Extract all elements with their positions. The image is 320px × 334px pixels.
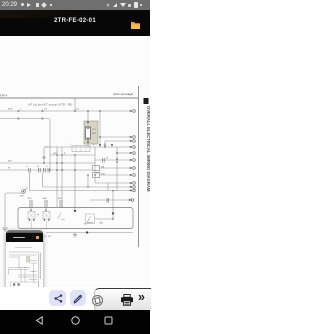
inline connector y170 b — [39, 168, 41, 173]
junction y155 b — [61, 154, 63, 156]
wire bus y163 — [0, 162, 95, 164]
wire exit y200 — [90, 199, 130, 201]
splice tick x18 y111 — [17, 110, 20, 112]
svg-text:E1: E1 — [84, 224, 87, 226]
ECU pin connector a — [30, 200, 32, 208]
exit circle y200 — [131, 199, 134, 202]
ground wire left — [5, 193, 22, 228]
wire bus y191 — [29, 190, 131, 192]
ground symbol bottom — [73, 233, 77, 238]
svg-text:4.0: 4.0 — [76, 109, 80, 111]
switch S2 inside ECU — [87, 217, 93, 223]
svg-text:B-R: B-R — [96, 173, 100, 175]
wire exit y141 — [105, 140, 131, 142]
connector arrow into relay top — [87, 122, 89, 124]
junction q2 — [45, 209, 46, 210]
inline connector y170 e — [56, 169, 58, 171]
folder icon — [130, 20, 141, 30]
junction x100 y137 — [99, 136, 101, 138]
plus marks between drivers — [37, 214, 39, 216]
wire stub q1 — [30, 208, 32, 213]
junction relay feed — [87, 110, 89, 112]
mini ECU box — [10, 282, 38, 288]
junction q1 — [30, 209, 31, 210]
exit arrow y183 — [130, 182, 132, 183]
junction x115 y153 — [116, 152, 118, 154]
title bar — [0, 10, 150, 36]
status bar — [0, 0, 150, 10]
inline connector y170 a — [29, 168, 31, 173]
wire bus W-B y111 — [0, 110, 131, 112]
printer icon — [120, 294, 134, 306]
wire stub below Q1 — [31, 221, 33, 229]
junction y155 a — [56, 154, 58, 156]
svg-text:W-B: W-B — [8, 109, 13, 111]
wire vertical x100 — [99, 111, 101, 147]
wire exit y183 — [95, 182, 131, 184]
exit circle y183 — [133, 182, 136, 185]
splice tick x42 y111 — [41, 110, 44, 112]
exit circle y168 — [133, 167, 136, 170]
svg-text:RLY: RLY — [92, 133, 97, 135]
svg-text:2: 2 — [20, 109, 22, 111]
mini caption — [15, 247, 32, 249]
mini title bar — [6, 233, 43, 242]
switch S1 inside ECU — [58, 213, 65, 220]
exit circle y141 — [133, 140, 136, 143]
inline connector y160 — [103, 158, 105, 163]
mini sidebar text — [39, 253, 41, 279]
svg-text:1: 1 — [70, 144, 72, 146]
svg-text:OVERALL ELECTRICAL WIRING DIAG: OVERALL ELECTRICAL WIRING DIAGRAM — [146, 106, 150, 192]
wire exit y175 — [95, 174, 131, 176]
wire relay to bus y147 — [87, 144, 89, 148]
exit arrow y191 — [130, 190, 132, 191]
connector arrow on bus y147 b — [111, 144, 113, 146]
connector ring x44 — [43, 156, 45, 158]
share button — [49, 290, 66, 307]
wire exit y168 — [95, 167, 131, 169]
junction x75 y170 — [74, 169, 76, 171]
exit circle y175 — [133, 174, 136, 177]
exit arrow y168 — [130, 167, 132, 168]
splice tick x18 y118.5 — [17, 117, 20, 119]
android nav bar — [0, 310, 150, 334]
mini verticals — [18, 257, 20, 268]
wire vertical x115 — [116, 147, 118, 191]
wire vertical x57 — [56, 147, 58, 208]
mini folder icon — [36, 236, 39, 239]
wire stub q2 — [45, 208, 47, 213]
connector arrow out of relay bottom — [87, 141, 89, 143]
wire exit y153 — [117, 152, 131, 154]
svg-text:E03: E03 — [20, 196, 24, 198]
wire bus y155 — [50, 154, 95, 156]
svg-text:B-O: B-O — [8, 161, 12, 163]
relay K1 coil — [86, 127, 91, 139]
rotate/bubble icon — [91, 294, 104, 307]
svg-text:STA: STA — [99, 222, 103, 225]
fuse F2 — [93, 173, 100, 178]
exit arrow y160 — [130, 159, 132, 160]
mini status bar — [6, 230, 43, 233]
exit connectors group — [129, 110, 136, 202]
exit arrow y187 — [130, 186, 132, 187]
ECU pin connector b — [45, 200, 47, 208]
ground symbol left — [2, 228, 8, 231]
mini page — [6, 242, 43, 295]
svg-text:IK: IK — [37, 166, 40, 168]
exit circle y153 — [133, 152, 136, 155]
exit arrow y137 — [130, 136, 132, 137]
svg-text:W-B: W-B — [53, 153, 58, 155]
exit circle y147 — [133, 146, 136, 149]
junction y175 b — [94, 174, 96, 176]
connector C1 dots — [23, 191, 24, 192]
junction x105 y147 — [104, 146, 106, 148]
connector arrow into ECU x75 — [74, 210, 77, 213]
frame right border — [138, 86, 140, 247]
wire inside ECU y219 — [95, 218, 113, 220]
wire vertical x95 right block — [94, 147, 96, 175]
wire stub below Q2 — [46, 221, 48, 229]
relay pin 1 — [87, 127, 89, 129]
inline connector y170 d — [48, 168, 50, 173]
svg-text:IG: IG — [106, 158, 109, 160]
junction block J1 — [72, 146, 90, 152]
mini ground — [7, 268, 9, 275]
pencil button — [70, 290, 87, 307]
junction x57 y163 — [56, 162, 58, 164]
svg-text:7.5A: 7.5A — [101, 173, 106, 176]
junction x75 y111 — [74, 110, 76, 112]
ECU pin connector c — [60, 200, 62, 208]
svg-text:A/T (a) and A/T except (GTR -: A/T (a) and A/T except (GTR - FE) — [28, 103, 73, 106]
mini relay — [26, 257, 29, 263]
svg-text:E2 E3: E2 E3 — [44, 236, 51, 238]
junction x50 y170 — [49, 169, 51, 171]
junction x62 y170 — [61, 169, 63, 171]
svg-text:2: 2 — [93, 145, 95, 147]
driver Q1 crossed box — [28, 212, 35, 220]
svg-text:4.0: 4.0 — [44, 109, 48, 111]
junction x115 y219 — [112, 218, 114, 220]
ECU U1 box — [18, 208, 133, 229]
fuse F1 — [93, 166, 100, 171]
splice tick x42 y118.5 — [41, 117, 44, 119]
wire feed from top border x75 — [74, 98, 76, 111]
mini marks — [13, 267, 34, 286]
exit circle y111 — [133, 110, 136, 113]
wire bus y187 — [42, 186, 131, 188]
wire stub x105 — [104, 141, 106, 147]
exit arrow y175 — [130, 174, 132, 175]
exit arrow y141 — [130, 140, 132, 141]
driver pin dots — [29, 219, 50, 220]
relay pin 2 — [87, 138, 89, 140]
frame top border — [0, 97, 139, 99]
wire vertical x75 — [74, 155, 76, 210]
wire drop x95 to y183 — [94, 175, 96, 183]
svg-text:C/O: C/O — [92, 129, 96, 131]
svg-text:IL: IL — [47, 166, 49, 168]
relay K1 body — [84, 121, 98, 144]
mini wire rows — [9, 254, 37, 256]
inline connector y200 — [107, 198, 109, 203]
connector arrow into ECU x113 — [112, 213, 115, 216]
driver Q2 crossed box — [43, 212, 50, 220]
junction y175 a — [87, 174, 89, 176]
sub-module box inside ECU — [86, 214, 95, 224]
svg-text:B: B — [64, 153, 66, 155]
wire bus y147 — [44, 146, 131, 148]
wire stub x88 down — [87, 175, 89, 187]
exit arrow y147 — [130, 146, 132, 147]
exit circle y187 — [133, 186, 136, 189]
wire bus y170 — [0, 169, 92, 171]
wire exit y137 — [100, 136, 131, 138]
exit circle y191 — [133, 189, 136, 192]
inline connector y170 c — [44, 168, 46, 173]
svg-text:W: W — [8, 168, 11, 170]
svg-text:TAF 4: TAF 4 — [0, 93, 8, 97]
svg-text:IJ: IJ — [27, 166, 29, 168]
exit arrow y200 — [129, 199, 131, 200]
svg-text:A45: A45 — [43, 197, 47, 200]
connector ring x105 bus147 — [104, 144, 106, 146]
exit circle y160 — [133, 159, 136, 162]
exit arrow y111 — [130, 110, 132, 111]
wire stub x108 — [107, 183, 109, 191]
connector C1 on ground wire — [22, 190, 26, 194]
wire lower bus y233 — [46, 232, 133, 234]
junction block pins — [76, 146, 86, 152]
mini frame top — [9, 251, 39, 253]
wire vertical x62 — [61, 147, 63, 208]
svg-text:A21: A21 — [28, 197, 32, 200]
junction x100 top — [99, 110, 101, 112]
connector cluster x117 — [116, 158, 117, 159]
connector cluster x117 b — [116, 161, 117, 162]
screenshot preview thumbnail card — [6, 230, 43, 303]
junction y155 c — [74, 154, 76, 156]
exit circle y137 — [133, 136, 136, 139]
wire y118.5 — [0, 119, 50, 171]
wire exit y160 — [95, 159, 131, 161]
mini frame right — [37, 252, 39, 287]
exit arrow y153 — [130, 152, 132, 153]
svg-text:(Cont. next page): (Cont. next page) — [113, 92, 133, 96]
wire drop x42 — [41, 173, 43, 188]
wire drop to relay — [87, 111, 89, 121]
junction x62 y163 — [61, 162, 63, 164]
right gray panel — [94, 288, 151, 311]
wire drop x29 — [28, 173, 30, 191]
connector arrow on bus y147 a — [99, 144, 101, 146]
wire link connector to bus — [25, 187, 27, 190]
sidebar section marker — [144, 98, 149, 104]
junction x44 y163 — [43, 162, 45, 164]
mini toolbar — [6, 295, 44, 304]
toolbar row — [0, 287, 150, 310]
